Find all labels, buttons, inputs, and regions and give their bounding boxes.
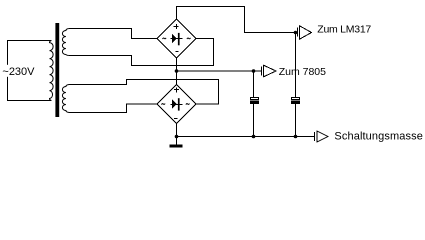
B1 diode triangle	[172, 33, 177, 43]
transformer secondary winding 1 (top)	[62, 29, 68, 56]
wire secondary1 top to bridge1 AC left (jog at x=131.5)	[69, 29, 157, 39]
wire capacitor C1 bottom lead	[253, 104, 255, 137]
capacitor C2 bottom plate (solid)	[291, 101, 300, 104]
transformer core bar	[55, 23, 59, 117]
svg-text:Schaltungsmasse: Schaltungsmasse	[334, 131, 423, 143]
junction dot mid node	[175, 69, 179, 73]
wire secondary2 bottom to bridge2 AC left (jog x=126.5)	[69, 104, 157, 113]
B2 diode lead	[171, 104, 183, 106]
B1 diode lead	[171, 38, 183, 40]
B2 diode triangle	[172, 99, 177, 109]
junction dot 7805 rail / C1	[252, 69, 256, 73]
output pin tick 7805	[261, 67, 263, 76]
junction dot ground / C1	[252, 135, 256, 139]
wire secondary2 top to bridge2 AC right (jog x=126.5, via x=218.5)	[69, 80, 219, 105]
wire ground rail	[177, 136, 315, 138]
B2 plus sign	[174, 88, 179, 93]
capacitor C1 bottom plate (solid)	[250, 101, 259, 104]
bridge rectifier B2 (bottom diamond)	[157, 85, 196, 124]
capacitor C2 top plate (outlined)	[292, 98, 300, 100]
B2 diode cathode bar	[178, 98, 180, 110]
svg-text:Zum LM317: Zum LM317	[317, 24, 371, 36]
capacitor C1 top plate (outlined)	[251, 98, 259, 100]
wire mid node to 7805 arrow	[177, 70, 262, 72]
wire capacitor C1 top lead	[253, 71, 255, 97]
B1 plus sign	[174, 24, 179, 29]
wire bridge1 plus to LM317 rail	[177, 7, 298, 33]
B1 diode cathode bar	[178, 33, 180, 45]
bridge rectifier B1 (top diamond)	[157, 19, 196, 58]
output arrow LM317	[300, 26, 312, 39]
svg-text:Zum 7805: Zum 7805	[279, 66, 326, 78]
B2 AC tilde right	[186, 104, 190, 105]
output arrow 7805	[264, 65, 277, 77]
B2 minus sign	[174, 118, 178, 120]
output pin tick Schaltungsmasse	[314, 132, 316, 141]
transformer secondary winding 2 (bottom)	[62, 85, 69, 113]
junction dot ground / bridge2	[175, 135, 179, 139]
B1 AC tilde left	[163, 38, 167, 39]
wire bridge1 minus down to mid node and bridge2 plus	[176, 58, 178, 85]
junction dot ground / C2	[294, 135, 298, 139]
output arrow Schaltungsmasse	[317, 131, 328, 142]
junction dot LM317 rail / C2	[294, 31, 298, 35]
wire capacitor C2 top lead (over label)	[295, 33, 297, 98]
label ~230V	[2, 65, 37, 77]
output pin tick LM317	[297, 28, 299, 37]
wire secondary1 bottom to bridge1 AC right (under bridge, via x=213.5)	[69, 39, 214, 66]
voltage source ~230V box	[8, 41, 52, 101]
B2 AC tilde left	[162, 104, 166, 105]
transformer primary winding	[50, 41, 54, 101]
wire bridge2 minus to ground rail and ground symbol	[176, 124, 178, 145]
wire capacitor C2 bottom lead	[295, 104, 297, 137]
B1 minus sign	[176, 51, 179, 53]
svg-text:~230V: ~230V	[2, 66, 35, 78]
ground symbol bar	[170, 145, 183, 148]
B1 AC tilde right	[187, 38, 191, 39]
